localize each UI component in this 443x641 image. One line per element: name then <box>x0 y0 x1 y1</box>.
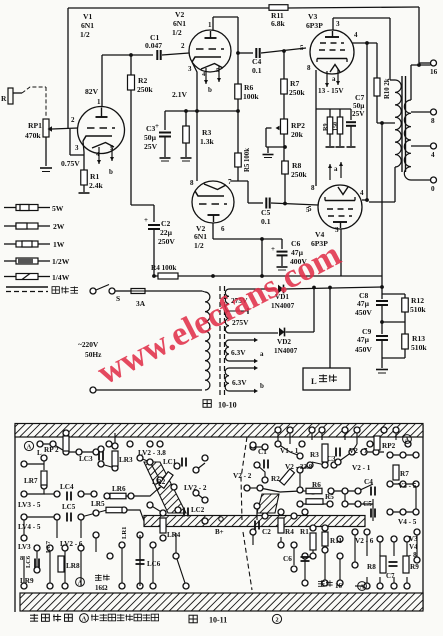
svg-text:R6: R6 <box>244 83 253 92</box>
svg-text:3A: 3A <box>136 299 146 308</box>
svg-text:R4: R4 <box>285 528 294 536</box>
svg-text:3: 3 <box>188 65 192 73</box>
svg-text:B+: B+ <box>215 528 224 536</box>
svg-text:L: L <box>37 449 42 457</box>
svg-text:V3: V3 <box>409 535 418 543</box>
svg-text:R10 2k: R10 2k <box>384 78 391 99</box>
svg-text:+: + <box>144 216 148 224</box>
svg-text:b: b <box>208 86 212 94</box>
svg-text:150: 150 <box>333 122 339 131</box>
svg-text:R3: R3 <box>202 128 211 137</box>
svg-text:5: 5 <box>300 44 304 52</box>
svg-text:RP1: RP1 <box>28 121 42 130</box>
svg-text:LV3 - 5: LV3 - 5 <box>18 501 41 509</box>
svg-text:0.75V: 0.75V <box>61 159 80 168</box>
svg-text:16: 16 <box>335 582 343 590</box>
svg-text:0.1: 0.1 <box>261 217 271 226</box>
svg-text:V1 - 1: V1 - 1 <box>280 447 299 455</box>
svg-text:~220V: ~220V <box>78 340 99 349</box>
svg-text:LV2 - 6: LV2 - 6 <box>60 540 83 548</box>
svg-text:C6: C6 <box>291 239 300 248</box>
svg-text:3: 3 <box>336 20 340 28</box>
svg-text:R2: R2 <box>271 475 280 483</box>
svg-text:LR9: LR9 <box>20 577 34 585</box>
svg-text:6N1: 6N1 <box>194 232 207 241</box>
svg-text:LC6: LC6 <box>147 560 161 568</box>
svg-text:LV2 - 2: LV2 - 2 <box>184 484 207 492</box>
svg-text:R: R <box>1 94 7 103</box>
svg-text:A: A <box>360 584 365 591</box>
svg-text:V1: V1 <box>83 12 92 21</box>
svg-text:V2 - 7: V2 - 7 <box>349 447 368 455</box>
svg-text:22µ: 22µ <box>160 228 173 237</box>
svg-text:LR3: LR3 <box>119 456 133 464</box>
svg-text:LC1: LC1 <box>163 458 177 466</box>
svg-text:LR5: LR5 <box>91 500 105 508</box>
svg-text:LR1: LR1 <box>121 527 128 539</box>
svg-text:R1: R1 <box>90 172 99 181</box>
svg-text:50µ: 50µ <box>144 133 157 142</box>
svg-text:RP 2: RP 2 <box>44 446 59 454</box>
svg-text:+: + <box>271 245 275 253</box>
svg-text:8: 8 <box>190 179 194 187</box>
svg-text:a: a <box>334 165 338 173</box>
svg-text:47µ: 47µ <box>357 335 370 344</box>
svg-text:4: 4 <box>360 189 364 197</box>
svg-text:R8: R8 <box>367 563 376 571</box>
svg-text:2: 2 <box>181 42 185 50</box>
svg-text:470k: 470k <box>25 131 41 140</box>
svg-text:8: 8 <box>307 64 311 72</box>
svg-text:C5: C5 <box>363 500 372 508</box>
svg-text:R3: R3 <box>310 451 319 459</box>
svg-text:10-10: 10-10 <box>218 401 237 410</box>
svg-text:1: 1 <box>97 98 101 106</box>
svg-text:b: b <box>109 168 113 176</box>
svg-text:7: 7 <box>228 178 232 186</box>
svg-text:R5 100k: R5 100k <box>244 148 251 172</box>
svg-text:25V: 25V <box>144 142 158 151</box>
svg-text:2.1V: 2.1V <box>172 90 187 99</box>
svg-text:C3: C3 <box>327 455 336 463</box>
svg-text:1N4007: 1N4007 <box>274 347 298 355</box>
svg-text:A: A <box>82 616 87 623</box>
svg-text:5W: 5W <box>52 204 64 213</box>
svg-text:LR8: LR8 <box>66 562 80 570</box>
svg-text:+: + <box>155 122 159 130</box>
svg-text:R12: R12 <box>411 296 424 305</box>
svg-text:16Ω: 16Ω <box>95 584 108 592</box>
svg-text:8: 8 <box>311 184 315 192</box>
svg-text:R9: R9 <box>410 563 419 571</box>
svg-text:L: L <box>311 376 317 386</box>
svg-text:C4: C4 <box>252 57 261 66</box>
svg-text:LR4: LR4 <box>167 531 181 539</box>
svg-text:510k: 510k <box>411 343 427 352</box>
svg-text:0.047: 0.047 <box>145 41 162 50</box>
svg-text:C6: C6 <box>283 555 292 563</box>
svg-text:250V: 250V <box>158 237 175 246</box>
svg-text:RP2: RP2 <box>291 121 305 130</box>
svg-text:6.8k: 6.8k <box>271 19 285 28</box>
svg-text:5: 5 <box>308 205 312 213</box>
svg-text:20k: 20k <box>291 130 304 139</box>
svg-text:R6: R6 <box>312 481 321 489</box>
svg-text:LC5: LC5 <box>62 503 76 511</box>
svg-text:LC4: LC4 <box>60 483 74 491</box>
svg-text:C3: C3 <box>146 124 155 133</box>
svg-text:- 8: - 8 <box>409 551 417 559</box>
svg-text:LV3: LV3 <box>18 543 31 551</box>
svg-text:a: a <box>332 75 336 83</box>
svg-text:450V: 450V <box>355 308 372 317</box>
svg-text:47µ: 47µ <box>357 299 370 308</box>
svg-text:LV4 - 5: LV4 - 5 <box>18 523 41 531</box>
svg-text:1/4W: 1/4W <box>52 273 70 282</box>
svg-text:1/2: 1/2 <box>172 28 182 37</box>
svg-text:1: 1 <box>208 21 212 29</box>
svg-text:A: A <box>78 580 83 587</box>
svg-text:S: S <box>116 294 120 303</box>
svg-text:3: 3 <box>75 144 79 152</box>
svg-text:25V: 25V <box>352 110 365 118</box>
svg-text:R2: R2 <box>138 76 147 85</box>
svg-text:C7: C7 <box>386 572 395 580</box>
svg-text:250k: 250k <box>291 170 307 179</box>
svg-text:C2: C2 <box>262 528 271 536</box>
svg-text:C4: C4 <box>364 478 373 486</box>
svg-text:C2: C2 <box>161 219 170 228</box>
svg-text:0: 0 <box>431 185 435 193</box>
svg-text:16: 16 <box>430 68 438 76</box>
svg-text:V2 - 6: V2 - 6 <box>355 537 374 545</box>
svg-text:250k: 250k <box>137 85 153 94</box>
svg-text:6.3V: 6.3V <box>231 348 246 357</box>
svg-text:R1: R1 <box>300 528 309 536</box>
svg-text:1.3k: 1.3k <box>200 137 214 146</box>
svg-text:1W: 1W <box>53 240 65 249</box>
svg-text:V3: V3 <box>308 12 317 21</box>
svg-text:250k: 250k <box>289 88 305 97</box>
svg-text:10-11: 10-11 <box>209 616 227 625</box>
svg-text:V3 - 5: V3 - 5 <box>398 482 417 490</box>
svg-text:2W: 2W <box>53 222 65 231</box>
svg-text:6: 6 <box>221 225 225 233</box>
svg-text:R8: R8 <box>292 161 301 170</box>
svg-text:510k: 510k <box>410 305 426 314</box>
svg-text:VD2: VD2 <box>277 338 291 346</box>
svg-text:LC7: LC7 <box>45 540 52 553</box>
svg-text:V2: V2 <box>175 10 184 19</box>
svg-text:1/2: 1/2 <box>80 30 90 39</box>
svg-text:4: 4 <box>431 151 435 159</box>
svg-text:RP2: RP2 <box>382 442 396 450</box>
svg-text:0.1: 0.1 <box>252 66 262 75</box>
svg-text:R5: R5 <box>325 493 334 501</box>
svg-text:R9: R9 <box>322 123 329 131</box>
svg-text:100k: 100k <box>243 92 259 101</box>
svg-text:C1: C1 <box>258 448 267 456</box>
svg-text:LV2 - 3.8: LV2 - 3.8 <box>138 449 166 457</box>
svg-text:R13: R13 <box>412 334 425 343</box>
svg-text:8: 8 <box>431 117 435 125</box>
svg-text:V4: V4 <box>409 543 418 551</box>
svg-text:2: 2 <box>275 617 278 624</box>
svg-text:1/2W: 1/2W <box>52 257 70 266</box>
svg-text:82V: 82V <box>85 87 99 96</box>
svg-text:3: 3 <box>335 226 339 234</box>
svg-text:C5: C5 <box>261 208 270 217</box>
svg-text:LR2: LR2 <box>152 478 166 486</box>
svg-text:R7: R7 <box>290 79 299 88</box>
svg-text:R7: R7 <box>400 470 409 478</box>
svg-text:50µ: 50µ <box>353 102 365 110</box>
svg-text:R11: R11 <box>330 537 342 545</box>
svg-text:2.4k: 2.4k <box>89 181 103 190</box>
svg-text:V2 - 2: V2 - 2 <box>233 472 252 480</box>
svg-text:6N1: 6N1 <box>81 21 94 30</box>
svg-text:4: 4 <box>354 31 358 39</box>
svg-text:LR7: LR7 <box>24 477 38 485</box>
svg-text:6N1: 6N1 <box>173 19 186 28</box>
svg-text:LC2: LC2 <box>191 506 205 514</box>
svg-text:2: 2 <box>71 116 75 124</box>
svg-text:A: A <box>405 437 410 444</box>
svg-text:V2 - 1: V2 - 1 <box>352 464 371 472</box>
svg-text:A: A <box>27 444 32 451</box>
svg-text:13 - 15V: 13 - 15V <box>318 87 344 95</box>
svg-text:C7: C7 <box>355 93 364 102</box>
svg-text:R4 100k: R4 100k <box>151 264 176 272</box>
svg-text:LC3: LC3 <box>79 455 93 463</box>
svg-text:LR6: LR6 <box>112 485 126 493</box>
svg-text:b: b <box>260 382 264 390</box>
svg-text:6P3P: 6P3P <box>306 21 323 30</box>
svg-text:1/2: 1/2 <box>194 241 204 250</box>
svg-text:V4 - 5: V4 - 5 <box>398 518 417 526</box>
svg-text:a: a <box>260 350 264 358</box>
svg-text:6.3V: 6.3V <box>232 378 247 387</box>
svg-text:450V: 450V <box>355 345 372 354</box>
svg-text:LC6: LC6 <box>25 555 32 568</box>
